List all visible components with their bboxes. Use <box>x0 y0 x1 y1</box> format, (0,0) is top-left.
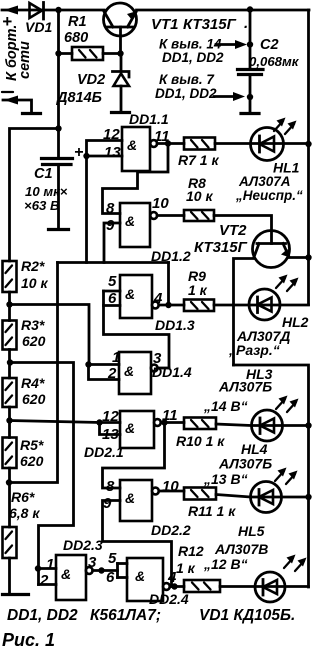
pin 13 DD1.1 <box>104 144 121 161</box>
capacitor C1 <box>24 144 83 230</box>
resistor R11 <box>184 488 236 520</box>
resistor R6 <box>3 489 41 558</box>
svg-text:DD1.2: DD1.2 <box>151 248 191 264</box>
resistor R4 <box>3 375 46 407</box>
zener VD2 <box>55 54 130 113</box>
svg-text:„Разр.“: „Разр.“ <box>228 342 280 358</box>
svg-text:АЛ307А: АЛ307А <box>238 174 290 189</box>
svg-text:1: 1 <box>112 349 120 366</box>
svg-text:&: & <box>135 568 145 584</box>
svg-text:10 к: 10 к <box>186 188 213 204</box>
resistor R9 <box>184 268 214 311</box>
wire DD2.2 output <box>159 490 184 493</box>
wire lower right rail <box>234 365 309 587</box>
svg-text:„14 В“: „14 В“ <box>203 398 248 414</box>
svg-text:13: 13 <box>102 426 119 443</box>
svg-text:Д814Б: Д814Б <box>55 90 102 106</box>
svg-text:R1: R1 <box>68 14 87 30</box>
svg-text:.: . <box>244 15 248 32</box>
svg-text:сети: сети <box>17 41 33 79</box>
svg-text:9: 9 <box>106 217 115 234</box>
svg-text:R12: R12 <box>178 543 204 559</box>
wire right rail upper <box>307 10 310 305</box>
resistor R12 <box>176 543 220 592</box>
svg-text:К561ЛА7;: К561ЛА7; <box>90 607 161 624</box>
wire R11 to HL4 <box>216 495 309 498</box>
svg-text:DD2.4: DD2.4 <box>149 591 189 607</box>
LED HL1 <box>251 118 297 161</box>
wire DD1.3 output <box>159 302 184 308</box>
svg-text:К выв. 7: К выв. 7 <box>159 72 215 87</box>
svg-text:DD1.3: DD1.3 <box>155 317 195 333</box>
node HL3 cathode rail junction <box>305 422 311 428</box>
pin 13 DD2.1 <box>102 426 119 443</box>
svg-text:R10 1 к: R10 1 к <box>176 433 225 449</box>
wire feedback down to DD1.3 output <box>167 263 170 306</box>
wire R4-R5 <box>6 407 12 438</box>
terminal minus <box>2 92 41 114</box>
svg-text:3: 3 <box>153 350 162 367</box>
pin 1 DD2.3 <box>46 556 54 573</box>
svg-text:10 к: 10 к <box>21 275 48 291</box>
pin 3 DD2.3 <box>88 554 97 571</box>
transistor VT1 <box>104 3 138 54</box>
svg-text:2: 2 <box>107 365 117 382</box>
svg-text:8: 8 <box>106 200 115 217</box>
wire DD1.2 output <box>157 214 184 217</box>
svg-text:3: 3 <box>88 554 97 571</box>
svg-text:620: 620 <box>20 453 44 469</box>
pin 4 DD2.4 <box>167 569 177 586</box>
svg-text:R4*: R4* <box>21 375 45 391</box>
label figure caption <box>2 630 55 650</box>
svg-text:„13 В“: „13 В“ <box>203 471 248 487</box>
svg-text:DD1.1: DD1.1 <box>129 111 169 127</box>
label parts list <box>7 607 295 624</box>
label HL2 <box>228 314 309 358</box>
svg-text:5: 5 <box>108 550 117 567</box>
svg-text:&: & <box>61 566 71 582</box>
transistor VT2 <box>194 222 290 268</box>
svg-text:DD1, DD2: DD1, DD2 <box>7 607 78 624</box>
pin 5 DD2.4 <box>108 550 117 567</box>
wire DD1.1 output <box>157 140 184 146</box>
wire DD2.2 pin9 to DD2.4 output <box>103 501 172 587</box>
pin 2 DD1.4 <box>107 365 117 382</box>
svg-text:9: 9 <box>103 495 112 512</box>
wire DD1.1 out to DD1.2 pin8 <box>103 144 169 214</box>
op-amp gate DD2.1 <box>84 411 161 460</box>
svg-text:R7 1 к: R7 1 к <box>178 152 219 168</box>
svg-text:DD2.1: DD2.1 <box>84 444 124 460</box>
pin 10 DD1.2 <box>152 195 169 212</box>
pin 8 DD1.2 <box>106 200 115 217</box>
pin 9 DD2.2 <box>103 495 112 512</box>
svg-text:5: 5 <box>108 273 117 290</box>
resistor R8 <box>184 175 214 221</box>
svg-text:+: + <box>74 144 83 161</box>
pin 12 DD2.1 <box>102 408 119 425</box>
node pin7 ground arrow <box>155 72 253 101</box>
label HL3 <box>203 366 273 414</box>
svg-text:R6*: R6* <box>11 489 35 505</box>
svg-text:680: 680 <box>64 30 88 46</box>
svg-text:2: 2 <box>39 572 49 589</box>
op-amp gate DD2.4 <box>127 558 189 607</box>
svg-text:„12 В“: „12 В“ <box>203 556 248 572</box>
wire DD1.1 inputs branch <box>83 141 122 263</box>
svg-text:КТ315Г: КТ315Г <box>183 16 237 33</box>
op-amp gate DD1.4 <box>119 352 192 394</box>
svg-text:C2: C2 <box>260 37 279 53</box>
svg-text:R5*: R5* <box>20 437 44 453</box>
op-amp gate DD1.3 <box>120 275 195 333</box>
svg-text:&: & <box>125 286 135 302</box>
svg-text:10 мк×: 10 мк× <box>25 184 68 199</box>
wire R1-junction down to C1 <box>57 54 60 158</box>
wire R2-R3 <box>6 292 12 321</box>
diode VD1 <box>25 3 52 36</box>
svg-text:1 к: 1 к <box>176 560 196 576</box>
wire DD2.4 output <box>170 583 184 589</box>
wire VT2 emitter to rail <box>289 254 312 260</box>
label HL1 <box>235 160 303 204</box>
svg-text:КТ315Г: КТ315Г <box>194 239 248 256</box>
wire C1 junction left to divider rail <box>10 129 59 262</box>
svg-text:1: 1 <box>46 556 54 573</box>
node C1 top junction <box>55 125 61 131</box>
node VD1 cathode junction <box>55 7 61 13</box>
resistor R3 <box>3 317 46 350</box>
node HL1 cathode rail junction <box>305 141 311 147</box>
pin 1 DD1.4 <box>112 349 120 366</box>
wire VD1 junction down to R1 <box>55 10 61 57</box>
svg-text:12: 12 <box>103 126 120 143</box>
svg-text:VT2: VT2 <box>219 222 247 239</box>
resistor R2 <box>3 258 49 292</box>
node VT1 base junction <box>117 50 123 56</box>
svg-text:&: & <box>125 213 135 229</box>
pin 6 DD2.4 <box>106 569 115 586</box>
resistor R5 <box>3 437 44 469</box>
svg-text:6: 6 <box>106 569 115 586</box>
pin 4 DD1.3 <box>153 290 163 307</box>
wire tap R4-R5 to DD2.1 inputs <box>10 419 121 434</box>
svg-text:DD2.3: DD2.3 <box>63 537 103 553</box>
svg-text:×63 В: ×63 В <box>24 198 60 213</box>
label VT1 type <box>151 15 248 33</box>
svg-text:DD1, DD2: DD1, DD2 <box>162 50 224 65</box>
svg-text:&: & <box>127 137 137 153</box>
svg-text:&: & <box>125 490 135 506</box>
LED HL5 <box>255 555 307 603</box>
svg-text:R3*: R3* <box>21 317 45 333</box>
capacitor C2 <box>238 10 300 114</box>
pin 3 DD1.4 <box>153 350 162 367</box>
svg-text:1 к: 1 к <box>188 282 208 298</box>
wire R9 to HL2 <box>214 304 309 307</box>
svg-text:8: 8 <box>106 478 115 495</box>
svg-text:DD2.2: DD2.2 <box>151 522 191 538</box>
wire DD1.4 output stub <box>158 367 169 370</box>
wire R12 to HL5 <box>220 585 309 588</box>
node C2 top junction <box>247 6 253 12</box>
wire R5-R6 <box>6 468 12 527</box>
node pin14 supply arrow <box>159 37 253 66</box>
terminal + (К борт. сети) <box>2 6 18 32</box>
wire feedback net horizontal y263 <box>58 261 169 264</box>
pin 9 DD1.2 <box>106 217 115 234</box>
op-amp gate DD1.1 <box>122 111 169 171</box>
pin 2 DD2.3 <box>39 572 49 589</box>
wire tap R5-R6 up to feedback net <box>9 263 58 483</box>
svg-text:6,8 к: 6,8 к <box>9 505 40 521</box>
wire DD2.1 out to DD2.2 pin8 <box>103 423 165 489</box>
resistor R1 <box>59 14 121 60</box>
wire top rail right <box>137 9 310 12</box>
svg-text:R11 1 к: R11 1 к <box>188 503 236 519</box>
wire tap R2-R3 to DD1.4 inputs <box>10 305 120 380</box>
svg-text:&: & <box>125 420 135 436</box>
op-amp gate DD2.2 <box>120 480 191 538</box>
svg-text:13: 13 <box>104 144 121 161</box>
pin 11 DD2.1 <box>162 407 178 424</box>
svg-text:АЛ307Б: АЛ307Б <box>218 456 272 472</box>
label HL5 <box>203 523 268 572</box>
wire VT2 collector to lower rail <box>234 259 255 366</box>
wire tap R3-R4 to DD2.3 inputs <box>10 363 74 585</box>
LED HL2 <box>249 275 299 321</box>
ground R6 bottom <box>3 558 29 595</box>
svg-text:VT1: VT1 <box>151 16 179 33</box>
svg-text:10: 10 <box>152 195 169 212</box>
svg-text:VD1 КД105Б.: VD1 КД105Б. <box>199 607 295 624</box>
svg-text:„Неиспр.“: „Неиспр.“ <box>235 188 303 203</box>
svg-text:VD2: VD2 <box>77 72 105 88</box>
svg-text:C1: C1 <box>34 166 53 182</box>
svg-text:620: 620 <box>22 391 46 407</box>
node К борт. сети label <box>4 25 33 81</box>
svg-text:10: 10 <box>162 478 179 495</box>
pin 6 DD1.3 <box>108 290 117 307</box>
wire DD1.2 pin9 branch <box>104 223 120 263</box>
svg-text:АЛ307Б: АЛ307Б <box>218 379 272 395</box>
svg-text:АЛ307В: АЛ307В <box>214 541 268 557</box>
svg-text:620: 620 <box>22 333 46 349</box>
op-amp gate DD1.2 <box>120 203 191 264</box>
wire DD2.3 output to DD2.4 inputs <box>93 564 127 578</box>
svg-text:R2*: R2* <box>21 258 45 274</box>
pin 5 DD1.3 <box>108 273 117 290</box>
svg-text:DD1, DD2: DD1, DD2 <box>155 86 217 101</box>
wire top rail left <box>2 9 104 12</box>
LED HL3 <box>252 396 299 442</box>
op-amp gate DD2.3 <box>56 537 103 600</box>
pin 12 DD1.1 <box>103 126 120 143</box>
svg-text:VD1: VD1 <box>25 19 52 35</box>
LED HL4 <box>251 468 298 513</box>
resistor R7 <box>178 138 219 169</box>
wire R8 to VT2 base <box>214 216 272 244</box>
pin 8 DD2.2 <box>106 478 115 495</box>
svg-text:HL5: HL5 <box>238 523 265 539</box>
wire R7 to HL1 <box>215 142 309 145</box>
wire R10 to HL3 <box>216 424 309 426</box>
svg-text:&: & <box>124 363 134 379</box>
svg-text:Рис. 1: Рис. 1 <box>2 630 55 650</box>
label HL4 <box>203 441 272 487</box>
wire R3-R4 <box>7 350 13 379</box>
resistor R10 <box>176 418 225 450</box>
pin 10 DD2.2 <box>162 478 179 495</box>
wire DD1.3 inputs tie to DD1.4 output <box>104 291 170 368</box>
wire DD2.1 output <box>161 419 184 425</box>
svg-text:12: 12 <box>102 408 119 425</box>
node HL4 cathode rail junction <box>305 494 311 500</box>
svg-text:0,068мк: 0,068мк <box>249 54 300 69</box>
pin 11 DD1.1 <box>154 128 170 145</box>
